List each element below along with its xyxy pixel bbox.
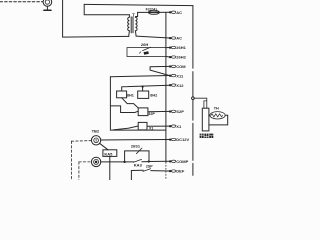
- plug P1: [43, 0, 52, 10]
- svg-text:COM: COM: [176, 64, 186, 69]
- transformer T primary winding: [128, 15, 130, 37]
- terminal X1: [169, 124, 182, 129]
- svg-text:26S1: 26S1: [131, 144, 141, 149]
- wire X11 / controller box top edge: [110, 76, 169, 77]
- wire dashed TB2 ladder: [71, 141, 91, 180]
- transformer T core: [131, 17, 133, 33]
- terminal DEF: [169, 169, 185, 174]
- junction loop/main: [148, 160, 150, 162]
- connector TB2: [91, 128, 100, 145]
- terminal AC1: [169, 10, 182, 15]
- wire 26H to terminal 26H2: [166, 56, 170, 59]
- fuse F2 2A: [146, 7, 160, 14]
- thermistor TH: [209, 107, 228, 125]
- contact 2SP defrost branch: [131, 169, 169, 180]
- wire mains branch to transformer primary top: [84, 4, 129, 14]
- wire TB2 to terminal DC12V: [101, 139, 170, 142]
- connector TB1: [91, 157, 100, 166]
- controller box left edge: [109, 77, 111, 130]
- svg-text:T: T: [132, 13, 135, 18]
- label sensor (glyph blocks): [200, 134, 214, 138]
- wire box edge to relay 32P left: [110, 106, 138, 113]
- wire KA5 down (cut off): [109, 156, 111, 179]
- controller box bottom edge: [110, 129, 165, 131]
- terminal COM: [169, 64, 186, 69]
- wire secondary bottom to terminal AC2: [136, 36, 170, 38]
- terminal X11: [169, 73, 184, 78]
- wire COMP net to terminal: [149, 160, 169, 162]
- svg-text:TH: TH: [214, 107, 219, 111]
- svg-text:KA5: KA5: [104, 151, 113, 156]
- wire top bus to right boundary: [84, 4, 193, 5]
- terminal X12: [169, 83, 184, 88]
- svg-text:KA3: KA3: [134, 162, 143, 167]
- wire junction to relay 8H2: [142, 87, 144, 91]
- terminal 26H1: [169, 45, 187, 50]
- svg-text:X1: X1: [176, 124, 182, 129]
- svg-text:S2P: S2P: [176, 109, 184, 114]
- wire sensor capillary: [194, 98, 207, 108]
- terminal AC2: [169, 36, 182, 41]
- svg-text:2SP: 2SP: [146, 165, 153, 169]
- wire box bottom to relay X1: [113, 126, 138, 130]
- wire fuse to terminal AC1: [160, 11, 170, 13]
- node bus line (indoor boundary): [165, 12, 167, 162]
- junction on X12 net: [142, 86, 144, 88]
- wire X1 coil to terminal X1: [147, 125, 170, 127]
- svg-text:X11: X11: [176, 73, 184, 78]
- wire TB1 to COMP net: [101, 161, 125, 163]
- contact KA3: [125, 159, 149, 167]
- wire 8H1 bottom to relay 32P: [122, 98, 139, 108]
- sensor well: [202, 108, 209, 131]
- junction COMP net: [123, 161, 125, 163]
- terminal DC12V: [169, 137, 189, 142]
- transformer T secondary winding: [135, 12, 137, 36]
- relay coil 8H1: [117, 91, 134, 98]
- relay coil 32P: [138, 108, 155, 116]
- svg-text:26H1: 26H1: [176, 45, 186, 50]
- wire X12 net: [122, 85, 170, 91]
- wire 32P to terminal S2P: [148, 110, 170, 112]
- wire mains left loop to transformer primary bottom: [63, 0, 129, 37]
- wire dashed TB1 ladder: [79, 162, 92, 180]
- wire secondary top to fuse: [138, 11, 148, 13]
- svg-text:26H2: 26H2: [176, 55, 186, 60]
- svg-text:8H2: 8H2: [150, 93, 157, 97]
- terminal 26H2: [169, 55, 187, 60]
- svg-text:COMP: COMP: [176, 159, 188, 164]
- svg-text:TB2: TB2: [92, 128, 100, 133]
- node sensor tap circle: [192, 97, 195, 100]
- svg-text:X12: X12: [176, 83, 184, 88]
- svg-text:X1: X1: [149, 127, 153, 131]
- wire TB2 to relay KA5: [99, 143, 108, 150]
- node boundary line right (long-dash segments): [192, 6, 194, 176]
- svg-text:26H: 26H: [141, 42, 148, 47]
- svg-text:32P: 32P: [148, 112, 155, 116]
- relay coil 8H2: [138, 91, 158, 98]
- svg-text:DC12V: DC12V: [176, 137, 189, 142]
- relay coil X1: [138, 122, 153, 130]
- terminal S2P: [169, 109, 184, 114]
- thermal protector 26H box: [127, 42, 166, 57]
- wire COM jog to X11 line: [150, 66, 170, 75]
- wire 26H to terminal 26H1: [166, 47, 170, 49]
- svg-text:F2(2A): F2(2A): [146, 7, 158, 11]
- wire dashed mains lead-in: [0, 1, 43, 3]
- svg-text:AC: AC: [176, 10, 182, 15]
- terminal COMP: [169, 159, 189, 164]
- svg-text:AC: AC: [176, 36, 182, 41]
- svg-text:8H1: 8H1: [127, 93, 134, 97]
- svg-text:DEF: DEF: [176, 169, 185, 174]
- contact 26S1 bypass loop: [125, 144, 149, 162]
- relay KA5: [103, 150, 117, 157]
